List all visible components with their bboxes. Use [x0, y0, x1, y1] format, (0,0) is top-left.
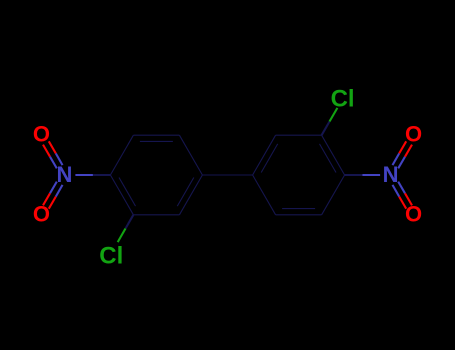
bond C4-N left nitro hetero half — [75, 174, 93, 176]
svg-text:Cl: Cl — [331, 85, 355, 112]
bond N=O right upper line2 O half — [399, 141, 406, 153]
bond right-ring C4'-C5' — [322, 135, 345, 175]
bond N=O left lower line2 N half — [56, 185, 63, 197]
bond left-ring C1-C6 — [179, 135, 202, 175]
bond N=O right upper line2 N half — [393, 153, 400, 165]
double-bond inner line right-ring C3'=C2' — [282, 208, 315, 210]
bond right-ring C6'-C1' — [253, 135, 276, 175]
bond N=O left lower line1 N half — [50, 182, 57, 194]
bond N=O left upper line1 O half — [49, 141, 56, 153]
double-bond inner line left-ring C3=C4 — [119, 178, 136, 207]
bond N=O right lower line2 N half — [398, 182, 405, 194]
bond right-ring C5'-C6' — [276, 134, 322, 136]
bond N=O right lower line1 O half — [399, 197, 406, 209]
double-bond inner line left-ring C5=C6 — [140, 140, 173, 142]
double-bond inner line right-ring C5'=C4' — [320, 144, 337, 173]
bond N=O left upper line1 N half — [56, 153, 63, 165]
bond C5'-Cl right chloro carbon half — [322, 122, 330, 136]
svg-text:Cl: Cl — [99, 242, 123, 269]
bond C3-Cl left chloro hetero half — [118, 229, 126, 243]
bond C4'-N right nitro hetero half — [362, 174, 380, 176]
bond C5'-Cl right chloro hetero half — [330, 108, 338, 122]
bond left-ring C3-C2 — [133, 214, 179, 216]
bond N=O right lower line2 O half — [405, 193, 412, 205]
bond left-ring C2-C1 — [179, 175, 202, 215]
bond right-ring C1'-C2' — [253, 175, 276, 215]
svg-text:N: N — [383, 162, 399, 187]
double-bond inner line left-ring C1=C2 — [177, 178, 194, 207]
bond C4'-N right nitro carbon half — [345, 174, 363, 176]
svg-text:O: O — [405, 122, 422, 147]
bond N=O left upper line2 N half — [50, 157, 57, 169]
svg-text:O: O — [33, 201, 50, 226]
bond right-ring C3'-C4' — [322, 175, 345, 215]
svg-text:N: N — [56, 162, 72, 187]
double-bond inner line right-ring C1'=C6' — [261, 144, 278, 173]
bond N=O right upper line1 N half — [398, 157, 405, 169]
bond C3-Cl left chloro carbon half — [126, 215, 134, 229]
bond C4-N left nitro carbon half — [93, 174, 111, 176]
bond left-ring C6-C5 — [133, 134, 179, 136]
svg-text:O: O — [405, 201, 422, 226]
bond left-ring C5-C4 — [110, 135, 133, 175]
bond left-ring C4-C3 — [110, 175, 133, 215]
bond N=O left lower line1 O half — [43, 193, 50, 205]
bond N=O right upper line1 O half — [405, 145, 412, 157]
bond right-ring C2'-C3' — [276, 214, 322, 216]
svg-text:O: O — [33, 122, 50, 147]
bond N=O left lower line2 O half — [49, 197, 56, 209]
central biphenyl bond C1-C1' — [202, 174, 252, 176]
bond N=O left upper line2 O half — [43, 145, 50, 157]
bond N=O right lower line1 N half — [393, 185, 400, 197]
